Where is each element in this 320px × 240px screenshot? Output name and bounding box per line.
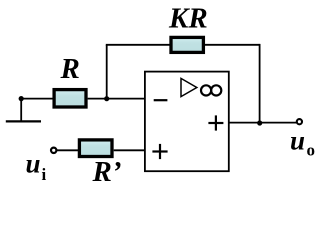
resistor KR (171, 37, 203, 52)
node B: output junction (257, 120, 262, 125)
svg-text:R: R (60, 53, 80, 85)
svg-text:R’: R’ (92, 156, 122, 188)
wire: input terminal to resistor R' (56, 149, 79, 151)
op-amp U1 body (145, 72, 229, 172)
op-amp output plus sign (208, 115, 223, 130)
wire: output (229, 122, 297, 124)
op-amp infinity symbol (201, 85, 221, 95)
op-amp minus input sign (154, 99, 168, 101)
terminal: input open circle u_i (51, 148, 56, 153)
svg-text:KR: KR (168, 3, 208, 35)
wire: feedback riser (106, 45, 108, 100)
ground (6, 99, 41, 122)
wire: feedback right drop (259, 44, 261, 123)
wire: input to resistor R (21, 98, 54, 100)
wire: feedback top right (203, 44, 259, 46)
op-amp triangle symbol (181, 78, 197, 96)
wire: R' to op-amp non-inverting input (114, 149, 146, 151)
wire: R to op-amp inverting input (88, 98, 146, 100)
terminal: output open circle (297, 119, 302, 124)
node A: inverting input junction (104, 96, 109, 101)
op-amp plus input sign (152, 144, 167, 159)
svg-text:u: u (290, 126, 305, 156)
svg-text:o: o (307, 141, 316, 160)
resistor R (54, 90, 86, 107)
wire: feedback top left (106, 44, 171, 46)
node: input junction (19, 96, 24, 101)
resistor R' (79, 140, 112, 157)
svg-text:i: i (42, 165, 47, 184)
svg-text:u: u (26, 149, 41, 179)
